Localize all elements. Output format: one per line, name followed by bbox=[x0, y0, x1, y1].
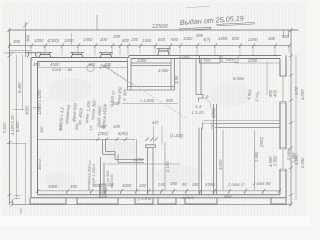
pilaster P1 bbox=[38, 53, 52, 58]
svg-text:пárc: пárc bbox=[226, 57, 235, 62]
bottom inner wall bbox=[38, 194, 281, 196]
faint diagonal strike 2 bbox=[108, 68, 186, 118]
svg-text:4.5: 4.5 bbox=[89, 125, 93, 131]
svg-text:мал: мал bbox=[224, 194, 232, 199]
small verticals 2200 dim bbox=[235, 59, 280, 63]
third top dim line left bbox=[9, 52, 31, 54]
door arc V1 bbox=[203, 98, 212, 108]
dim line below middle room bbox=[122, 103, 178, 105]
svg-text:200: 200 bbox=[99, 37, 108, 42]
svg-text:3000: 3000 bbox=[25, 105, 30, 115]
svg-text:900: 900 bbox=[171, 37, 179, 42]
pilasters on top wall (T-shaped) bbox=[26, 49, 171, 58]
svg-text:2200: 2200 bbox=[247, 37, 258, 42]
svg-text:штык: штык bbox=[182, 195, 195, 200]
ticks bottom overall bbox=[11, 203, 293, 207]
svg-text:300: 300 bbox=[59, 124, 63, 131]
vertical dim x267 bbox=[266, 62, 268, 95]
faint diagonal strike bbox=[101, 64, 133, 85]
svg-text:(1.100): (1.100) bbox=[170, 133, 184, 138]
svg-text:12500: 12500 bbox=[152, 24, 168, 30]
door jambs H1 bbox=[203, 122, 213, 130]
underline of title bbox=[179, 22, 255, 30]
svg-text:1500: 1500 bbox=[83, 37, 93, 42]
svg-text:2 отв 90: 2 отв 90 bbox=[252, 181, 271, 186]
faint smudges bbox=[44, 78, 250, 188]
500 step arrows right top bbox=[284, 30, 289, 37]
top middle room top inner line bbox=[131, 63, 171, 66]
footing pad E bbox=[185, 198, 217, 204]
svg-text:4(?): 4(?) bbox=[203, 37, 211, 42]
svg-text:400: 400 bbox=[273, 89, 278, 97]
bottom overall dim line bbox=[12, 204, 291, 206]
corner pilaster cap bbox=[26, 53, 38, 58]
ticks left vertical bbox=[8, 55, 12, 197]
pilaster P4 middle bbox=[157, 49, 171, 56]
footing pad D bbox=[158, 198, 176, 204]
right outer wall bbox=[285, 56, 287, 198]
left tick y143 bbox=[7, 143, 26, 145]
dim line under top wall left bbox=[38, 67, 129, 69]
left inner vertical dim bbox=[25, 33, 27, 57]
footing pad C bbox=[135, 198, 153, 204]
ticks kitchen dim bbox=[97, 138, 158, 142]
svg-text:4.15п: 4.15п bbox=[133, 157, 144, 162]
svg-text:6.450: 6.450 bbox=[17, 82, 22, 93]
svg-text:200: 200 bbox=[75, 123, 79, 131]
V1 bottom step bbox=[196, 95, 203, 102]
slash at top of x25 extension bbox=[24, 23, 28, 27]
vertical dim x180 bbox=[179, 60, 181, 139]
svg-text:450: 450 bbox=[33, 62, 41, 67]
svg-text:900: 900 bbox=[166, 98, 174, 103]
footing pad A bbox=[30, 198, 66, 204]
svg-text:у 1.0 м: у 1.0 м bbox=[137, 196, 151, 201]
svg-text:-1.4: -1.4 bbox=[194, 104, 202, 109]
svg-text:300: 300 bbox=[139, 183, 147, 188]
svg-text:4(300): 4(300) bbox=[47, 38, 60, 43]
svg-text:1000: 1000 bbox=[137, 58, 147, 63]
ticks right vertical bbox=[289, 55, 293, 197]
svg-text:4(50): 4(50) bbox=[118, 131, 128, 136]
svg-text:390: 390 bbox=[113, 34, 121, 39]
room / middle annotations bbox=[98, 75, 209, 162]
svg-text:1000: 1000 bbox=[183, 36, 193, 41]
dim row above bottom wall bbox=[38, 190, 281, 192]
top middle room left wall bbox=[128, 59, 132, 91]
right vertical dim line bbox=[290, 30, 292, 204]
svg-text:300: 300 bbox=[107, 182, 115, 187]
hatched door post bbox=[100, 184, 107, 198]
tiny rotated labels beside stair wall bbox=[38, 123, 114, 190]
svg-text:3.95: 3.95 bbox=[174, 75, 179, 84]
wall level jog x129 bbox=[128, 56, 130, 58]
boxed label 500 under wall bbox=[200, 56, 221, 64]
left inner vertical dim lower bbox=[25, 143, 27, 204]
svg-text:2.992: 2.992 bbox=[273, 155, 278, 167]
svg-text:4.00b: 4.00b bbox=[179, 54, 190, 59]
svg-text:800: 800 bbox=[122, 38, 130, 43]
svg-text:400: 400 bbox=[113, 124, 121, 129]
svg-text:300: 300 bbox=[26, 34, 31, 42]
svg-text:2.992: 2.992 bbox=[254, 151, 259, 163]
right vertical dim line 2 bbox=[295, 55, 297, 200]
interior wall V4 bbox=[199, 128, 202, 195]
svg-text:6.500: 6.500 bbox=[15, 121, 20, 132]
ticks dim A ends bbox=[8, 28, 293, 32]
left dim vertical x22 bbox=[22, 55, 24, 110]
svg-text:4000: 4000 bbox=[122, 183, 132, 188]
svg-text:соед — во: соед — во bbox=[52, 67, 73, 72]
axis mark bottom left bbox=[9, 199, 21, 214]
svg-text:1000: 1000 bbox=[34, 38, 44, 43]
top wall right section inner bbox=[131, 58, 280, 60]
svg-text:4.990: 4.990 bbox=[294, 154, 299, 165]
svg-text:240: 240 bbox=[157, 182, 166, 187]
footing pad B bbox=[77, 198, 118, 204]
svg-text:3(00): 3(00) bbox=[211, 108, 216, 118]
dim line mid 164 bbox=[106, 163, 180, 165]
svg-text:300: 300 bbox=[88, 62, 96, 67]
top wall right section outer bbox=[129, 55, 281, 57]
svg-text:1500: 1500 bbox=[142, 38, 152, 43]
left inner wall bbox=[37, 62, 39, 195]
svg-text:2.992: 2.992 bbox=[300, 157, 305, 169]
svg-text:0.91п: 0.91п bbox=[2, 122, 7, 133]
vertical dim x223 bbox=[222, 130, 224, 190]
top middle room bottom wall bbox=[128, 87, 175, 91]
interior horizontal wall H1 bbox=[215, 124, 280, 128]
overall top dimension line 12500 bbox=[9, 29, 298, 31]
vertical dim x136 bbox=[136, 139, 138, 191]
top middle room right wall bbox=[171, 59, 175, 91]
extension tick top center 2 bbox=[25, 22, 27, 35]
vertical dim x254 bbox=[254, 130, 256, 190]
H1 faint left continuation bbox=[203, 123, 215, 125]
top wall left section outer bbox=[31, 57, 129, 59]
svg-text:3.55п: 3.55п bbox=[158, 68, 169, 73]
faint scribble top bbox=[186, 6, 210, 8]
dim line right room bbox=[203, 120, 280, 122]
interior vertical wall V1 bbox=[196, 59, 201, 95]
left outer wall bbox=[30, 58, 32, 198]
bottom outer wall bbox=[31, 197, 286, 199]
ticks top dim B bbox=[8, 44, 291, 48]
svg-text:1500: 1500 bbox=[64, 38, 74, 43]
svg-text:400: 400 bbox=[40, 126, 44, 133]
pilaster P3 bbox=[99, 53, 113, 58]
svg-text:12500 х 4200: 12500 х 4200 bbox=[37, 89, 42, 115]
svg-text:2 отв ∅: 2 отв ∅ bbox=[227, 182, 245, 187]
ticks bottom dim row bbox=[36, 189, 281, 193]
vertical extension lines from dim line to wall bbox=[31, 33, 289, 195]
white bottom margin bbox=[0, 217, 310, 227]
svg-text:450 сл: 450 сл bbox=[38, 158, 42, 170]
rotated texts left margin bbox=[2, 82, 42, 135]
window gap right wall 2 bbox=[279, 148, 287, 171]
bottom extension lines bbox=[67, 191, 263, 195]
stepped wall (chimney) bbox=[103, 139, 145, 163]
third top dim line left b bbox=[9, 49, 31, 51]
rotated texts right margin bbox=[165, 86, 305, 173]
extension tick top center bbox=[96, 15, 98, 30]
svg-text:(300): (300) bbox=[259, 137, 264, 147]
pilaster P2 bbox=[70, 53, 84, 58]
svg-text:200: 200 bbox=[130, 37, 139, 42]
svg-text:300: 300 bbox=[13, 39, 21, 44]
footing pad F bbox=[271, 198, 286, 204]
svg-text:2200: 2200 bbox=[247, 58, 258, 63]
svg-text:4/0: 4/0 bbox=[152, 120, 158, 125]
bottom dimension numbers bbox=[48, 181, 271, 201]
interior wall V3 with top cap bbox=[146, 145, 156, 195]
top dimension numbers row bbox=[13, 33, 290, 44]
vertical dim x165 bbox=[164, 142, 166, 190]
svg-text:800: 800 bbox=[232, 36, 240, 41]
svg-text:3.02п: 3.02п bbox=[218, 159, 223, 170]
svg-text:4.000: 4.000 bbox=[300, 89, 305, 100]
svg-text:1500: 1500 bbox=[92, 183, 102, 188]
svg-text:800: 800 bbox=[158, 37, 166, 42]
interior vertical wall V2 bbox=[214, 104, 217, 195]
circled mark bbox=[87, 65, 95, 72]
svg-text:1500: 1500 bbox=[218, 36, 228, 41]
svg-text:500: 500 bbox=[204, 58, 212, 63]
window gap right wall 1 bbox=[279, 75, 287, 103]
dim line kitchen 139 bbox=[38, 138, 136, 140]
dim line under 2200 bbox=[235, 62, 280, 64]
rotated handwriting cluster mid-left bbox=[58, 86, 128, 131]
boxed label 2 bbox=[222, 56, 238, 63]
svg-text:300: 300 bbox=[268, 36, 276, 41]
svg-text:(200): (200) bbox=[98, 131, 108, 136]
svg-text:8.50м: 8.50м bbox=[233, 76, 244, 81]
svg-text:9.00: 9.00 bbox=[294, 86, 299, 95]
svg-text:≈ 2.800: ≈ 2.800 bbox=[140, 98, 155, 103]
left dim vertical x16 bbox=[16, 55, 18, 199]
svg-text:500: 500 bbox=[282, 34, 290, 39]
svg-text:с 1.10: с 1.10 bbox=[192, 110, 204, 115]
wall band labels bbox=[26, 34, 258, 81]
tick on left wall y108 bbox=[33, 107, 41, 109]
left sheet dim line vertical bbox=[8, 30, 10, 205]
stair wall vertical to bottom bbox=[101, 157, 105, 195]
right inner wall bbox=[279, 59, 281, 195]
second top dimension line bbox=[9, 45, 290, 47]
left tick y109 bbox=[13, 109, 24, 111]
top wall left section inner bbox=[38, 61, 128, 63]
axis cross top left bbox=[4, 48, 14, 58]
svg-text:(300): (300) bbox=[100, 64, 110, 69]
extension verticals above V3 bbox=[154, 126, 163, 145]
left ticks y195 bbox=[14, 196, 20, 199]
svg-text:450м: 450м bbox=[205, 182, 215, 187]
